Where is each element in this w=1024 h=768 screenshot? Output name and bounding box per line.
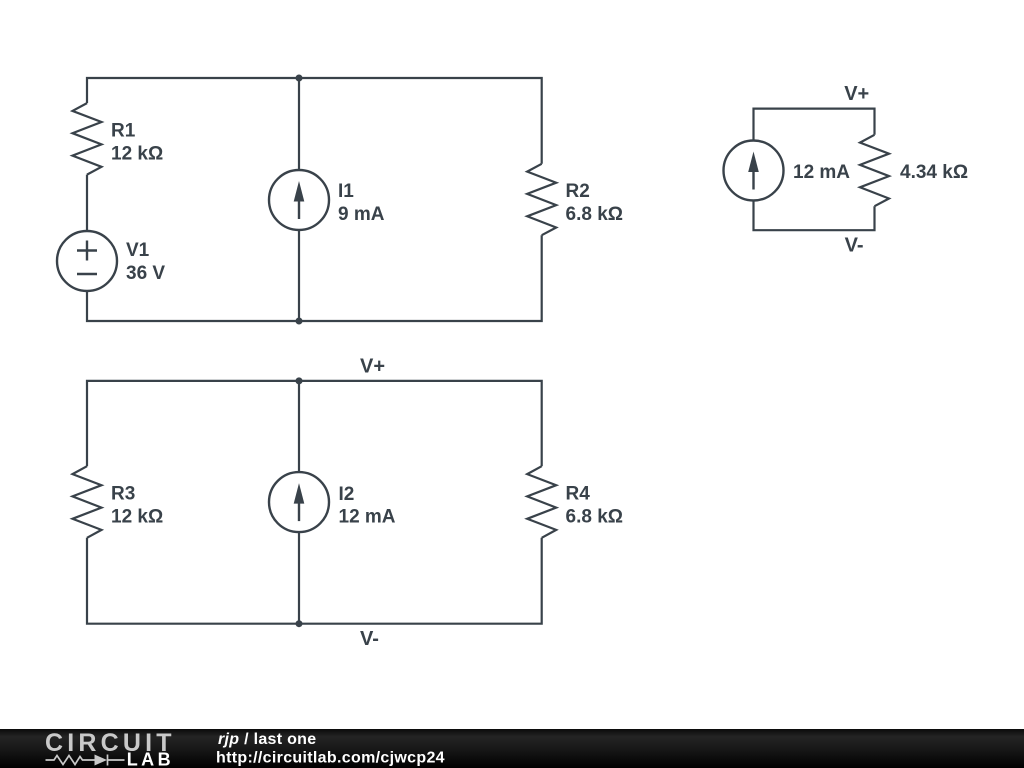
svg-text:LAB: LAB bbox=[127, 750, 175, 768]
svg-text:V+: V+ bbox=[844, 83, 869, 105]
svg-text:R1: R1 bbox=[111, 120, 136, 141]
svg-text:V-: V- bbox=[845, 234, 864, 256]
svg-text:R2: R2 bbox=[566, 181, 590, 202]
svg-text:12 mA: 12 mA bbox=[793, 162, 850, 183]
svg-text:rjp / last one: rjp / last one bbox=[218, 731, 316, 748]
svg-text:V+: V+ bbox=[360, 356, 385, 378]
svg-text:12 mA: 12 mA bbox=[339, 507, 396, 528]
svg-text:12 kΩ: 12 kΩ bbox=[111, 143, 163, 164]
svg-text:6.8 kΩ: 6.8 kΩ bbox=[566, 204, 624, 225]
svg-text:I2: I2 bbox=[339, 484, 355, 505]
svg-text:R4: R4 bbox=[566, 483, 591, 504]
svg-text:I1: I1 bbox=[338, 181, 354, 202]
svg-text:9 mA: 9 mA bbox=[338, 204, 385, 225]
svg-text:6.8 kΩ: 6.8 kΩ bbox=[566, 506, 624, 527]
svg-text:R3: R3 bbox=[111, 483, 135, 504]
svg-text:36 V: 36 V bbox=[126, 263, 165, 284]
svg-text:12 kΩ: 12 kΩ bbox=[111, 506, 163, 527]
svg-text:http://circuitlab.com/cjwcp24: http://circuitlab.com/cjwcp24 bbox=[216, 749, 445, 766]
svg-text:V-: V- bbox=[360, 628, 379, 650]
svg-text:4.34 kΩ: 4.34 kΩ bbox=[900, 162, 968, 183]
svg-text:V1: V1 bbox=[126, 240, 150, 261]
